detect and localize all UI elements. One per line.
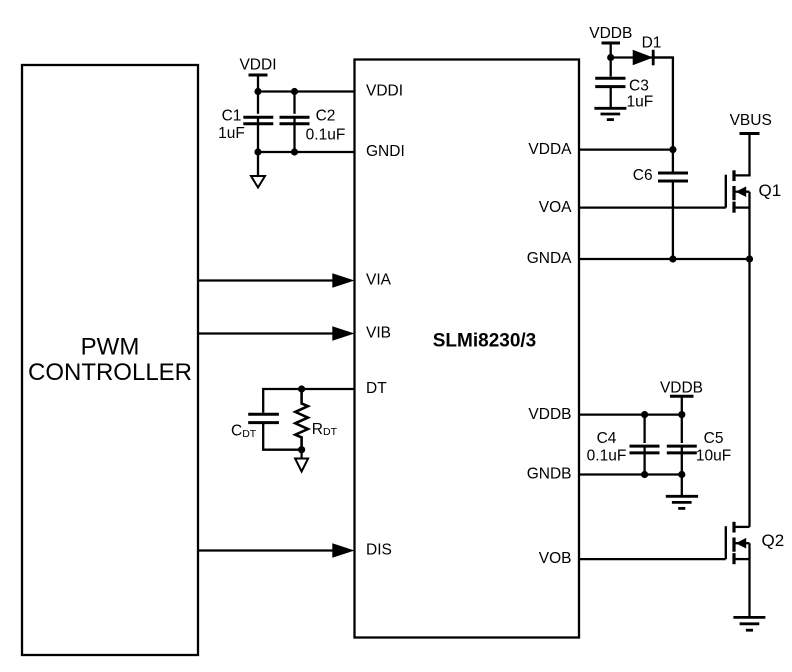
svg-text:VDDI: VDDI — [366, 83, 403, 100]
svg-text:1uF: 1uF — [218, 125, 245, 142]
wire VDDI rail to pin — [258, 90, 355, 92]
gate driver IC U1 SLMi8230/3 — [355, 60, 580, 638]
supply VDDB top — [589, 25, 632, 77]
svg-text:GNDB: GNDB — [527, 466, 572, 483]
svg-text:VDDI: VDDI — [239, 57, 276, 74]
wire Q2 drain from GNDA — [748, 259, 750, 527]
svg-text:VOA: VOA — [539, 199, 572, 216]
svg-text:VIA: VIA — [366, 272, 392, 289]
svg-text:0.1uF: 0.1uF — [587, 447, 627, 464]
wire VOB pin to Q2 gate — [579, 558, 726, 560]
ground earth below Q2 — [733, 617, 765, 630]
svg-text:VIB: VIB — [366, 325, 391, 342]
svg-text:VOB: VOB — [539, 550, 572, 567]
diode D1 — [633, 35, 662, 66]
wire VDDB to diode — [611, 56, 673, 58]
PWM controller box U2 — [22, 65, 198, 655]
wire GNDB pin — [579, 473, 682, 475]
supply VDDB bottom — [660, 380, 703, 415]
capacitor CDT — [231, 414, 279, 440]
wire C2 branch vertical — [293, 92, 295, 153]
wire VDDA pin — [579, 148, 673, 150]
svg-text:GNDI: GNDI — [366, 143, 405, 160]
svg-text:VBUS: VBUS — [730, 112, 772, 129]
svg-text:SLMi8230/3: SLMi8230/3 — [433, 331, 537, 352]
ground earth below C3 — [594, 88, 626, 120]
ground arrow below RDT — [295, 450, 308, 472]
svg-text:C3: C3 — [629, 78, 649, 95]
node VDDB/C4 junction — [641, 411, 648, 418]
ground arrow below C1 — [251, 152, 265, 188]
supply VDDI — [239, 57, 276, 92]
node VDDB/C5 junction — [678, 411, 685, 418]
wire bootstrap rail vertical — [653, 58, 673, 260]
resistor RDT — [295, 389, 337, 450]
node VDDA junction — [669, 146, 676, 153]
node VDDB/C3 junction — [607, 54, 614, 61]
wire DIS arrow — [198, 543, 355, 557]
node C2 bottom junction — [291, 148, 298, 155]
svg-text:C1: C1 — [222, 107, 242, 124]
node RDT bottom junction — [298, 446, 305, 453]
capacitor C2 — [280, 107, 346, 143]
svg-text:C5: C5 — [704, 430, 724, 447]
wire GNDA pin — [579, 258, 750, 260]
svg-text:Q2: Q2 — [762, 531, 785, 550]
svg-text:PWM: PWM — [81, 334, 140, 361]
svg-text:D1: D1 — [642, 35, 662, 52]
node GNDA/C6 junction — [669, 255, 676, 262]
wire VIB arrow — [198, 326, 355, 340]
svg-text:VDDB: VDDB — [528, 406, 571, 423]
wire C4 branch — [643, 415, 645, 475]
svg-text:VDDB: VDDB — [660, 380, 703, 397]
wire GNDI to pin — [258, 151, 355, 153]
svg-text:DT: DT — [366, 380, 387, 397]
wire DT to CDT branch — [263, 389, 301, 413]
node VDDI junction — [254, 88, 261, 95]
wire C1 branch vertical — [257, 92, 259, 153]
svg-text:VDDB: VDDB — [589, 25, 632, 42]
wire CDT bottom to node — [263, 424, 301, 450]
wire VOA pin to Q1 gate — [579, 206, 726, 208]
svg-text:DIS: DIS — [366, 542, 392, 559]
svg-text:Q1: Q1 — [759, 181, 782, 200]
svg-text:1uF: 1uF — [627, 94, 654, 111]
svg-text:C6: C6 — [633, 167, 653, 184]
svg-text:VDDA: VDDA — [528, 141, 572, 158]
transistor Q2 — [726, 522, 784, 618]
capacitor C1 — [218, 107, 273, 142]
node GNDB/C4 junction — [641, 471, 648, 478]
svg-text:10uF: 10uF — [696, 447, 731, 464]
node C2 top junction — [291, 88, 298, 95]
node GNDA/Q1 source junction — [746, 255, 753, 262]
transistor Q1 — [726, 134, 781, 260]
svg-text:C2: C2 — [316, 107, 336, 124]
capacitor C3 — [595, 78, 653, 111]
ground earth below C5 — [666, 496, 698, 508]
node DT junction — [298, 385, 305, 392]
wire VIA arrow — [198, 273, 355, 287]
capacitor C5 — [667, 430, 731, 465]
node GNDB/C5 junction — [678, 471, 685, 478]
wire DT pin — [302, 388, 355, 390]
svg-text:GNDA: GNDA — [527, 250, 572, 267]
supply VBUS — [730, 112, 772, 133]
svg-text:CONTROLLER: CONTROLLER — [28, 359, 192, 386]
svg-text:0.1uF: 0.1uF — [306, 126, 346, 143]
wire VDDB pin — [579, 413, 682, 415]
wire C5 branch — [681, 415, 683, 497]
capacitor C6 — [633, 167, 688, 184]
capacitor C4 — [587, 430, 660, 465]
node C1 bottom junction — [254, 148, 261, 155]
svg-text:C4: C4 — [597, 430, 617, 447]
